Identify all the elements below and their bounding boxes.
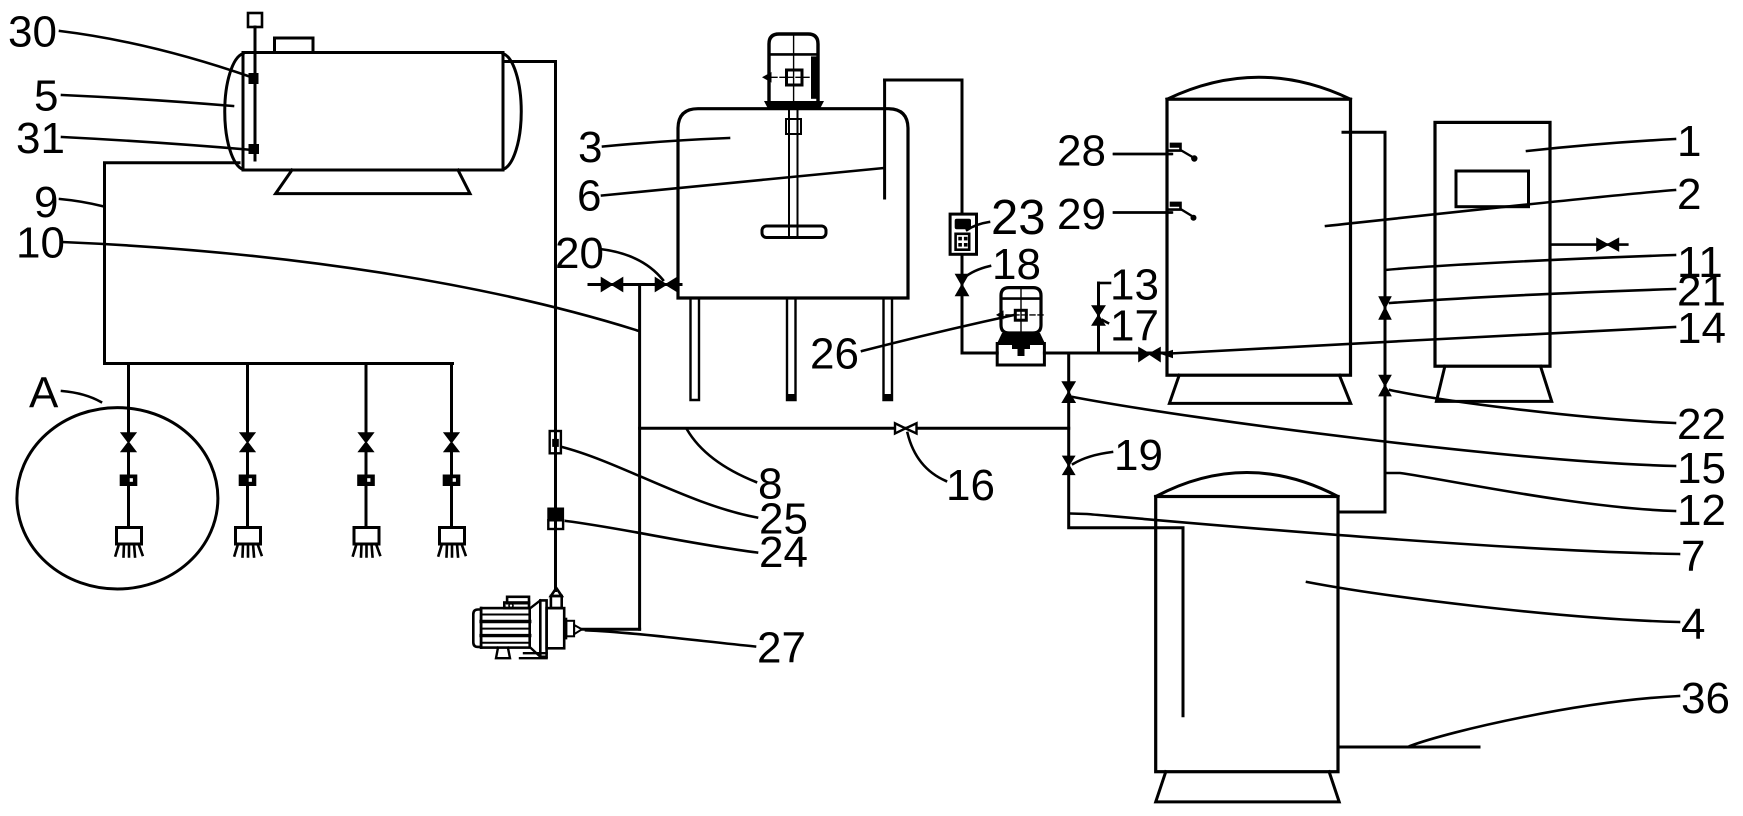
device 24 on down pipe: [547, 508, 564, 530]
spray drop 1: [127, 364, 130, 528]
tank 3 leg 3: [884, 298, 893, 400]
svg-text:24: 24: [759, 528, 808, 577]
tank 5 vent box: [275, 38, 314, 53]
leader 1: [1527, 139, 1675, 151]
agitator blade 6: [762, 226, 826, 238]
svg-text:36: 36: [1681, 674, 1730, 723]
tank 2 stand: [1169, 375, 1350, 403]
manifold frame 9: [105, 163, 453, 364]
pump 27 outlet pipe: [582, 628, 640, 631]
leader 10: [62, 242, 639, 331]
flow meter 25 on down pipe: [550, 431, 561, 453]
svg-text:31: 31: [16, 114, 65, 163]
svg-text:30: 30: [8, 8, 57, 57]
nozzle 3: [353, 528, 380, 557]
spray drop 2: [246, 364, 249, 528]
valve 16: [895, 423, 917, 433]
sensor 31 (lower black square): [249, 144, 260, 154]
leader 29: [1114, 211, 1171, 214]
tank 4 outlet pipe 36: [1338, 746, 1479, 749]
leader 24: [566, 521, 757, 553]
svg-text:19: 19: [1114, 431, 1163, 480]
valve 20 right: [656, 278, 677, 291]
svg-text:6: 6: [577, 172, 601, 221]
svg-text:23: 23: [991, 191, 1046, 245]
block on drop 2: [239, 475, 257, 487]
cabinet window: [1456, 171, 1529, 207]
leader 5: [62, 95, 233, 106]
spray drop 3: [365, 364, 368, 528]
leader 21: [1390, 289, 1675, 303]
nozzle 1: [116, 528, 143, 557]
tank 3 leg 1: [691, 298, 700, 400]
tank 5 body: [225, 53, 522, 171]
leader 11: [1385, 255, 1675, 270]
leader 22: [1390, 390, 1675, 423]
dip pipe 6 into tank 3: [883, 80, 886, 198]
valve 14: [1139, 348, 1160, 361]
block on drop 3: [357, 475, 375, 487]
svg-text:14: 14: [1677, 304, 1726, 353]
controller 23: [950, 214, 976, 254]
svg-text:7: 7: [1681, 532, 1705, 581]
svg-text:3: 3: [578, 123, 602, 172]
svg-text:A: A: [29, 369, 59, 418]
valve 19: [1063, 456, 1074, 474]
svg-text:28: 28: [1057, 127, 1106, 176]
agitator shaft: [786, 109, 801, 236]
svg-text:4: 4: [1681, 600, 1705, 649]
leader 23: [967, 222, 989, 230]
svg-text:10: 10: [16, 219, 65, 268]
leader 8: [687, 430, 756, 483]
tank 3 leg 2: [787, 298, 796, 400]
level gauge top square: [248, 13, 262, 27]
leader 26: [862, 315, 1014, 351]
transfer pipe down (15/19): [1069, 353, 1183, 716]
leader 30: [60, 31, 251, 77]
leader 9: [60, 199, 104, 207]
centrifugal pump 27: [473, 588, 582, 658]
control cabinet 1: [1435, 122, 1550, 366]
svg-text:12: 12: [1677, 486, 1726, 535]
svg-text:16: 16: [946, 461, 995, 510]
cabinet outlet pipe 11: [1550, 243, 1627, 246]
valve on drop 3: [359, 433, 373, 452]
pipe from tank 5 top to down pipe: [505, 62, 556, 591]
pipe tank2 to tank4 (11/21/22/12): [1339, 132, 1385, 512]
leader 28: [1114, 153, 1171, 156]
pipe tank3 top to pump 26: [885, 80, 998, 353]
block on drop 1: [120, 475, 138, 487]
metering pump 26: [996, 288, 1045, 365]
leader 7: [1070, 514, 1679, 555]
detail circle A: [17, 408, 218, 589]
valve on cabinet pipe: [1597, 239, 1618, 251]
tank 4 stand: [1156, 772, 1340, 802]
leader 2: [1326, 190, 1675, 226]
leader 16: [908, 433, 947, 481]
mixing tank 3: [678, 109, 908, 298]
nozzle 2: [235, 528, 262, 557]
valve 17: [1093, 306, 1105, 325]
leader 3: [603, 138, 729, 147]
valve on drop 4: [445, 433, 459, 452]
tank 5 stand: [276, 170, 470, 194]
leader 18: [964, 266, 990, 278]
leader 25: [562, 447, 757, 518]
leader 14: [1170, 327, 1675, 354]
feed line with valves 20: [589, 283, 681, 286]
svg-text:27: 27: [757, 624, 806, 673]
svg-text:18: 18: [992, 240, 1041, 289]
leader 31: [62, 137, 253, 150]
leader 6: [602, 168, 884, 196]
leader 13: [1099, 282, 1111, 285]
svg-text:26: 26: [810, 330, 859, 379]
sensor 28: [1114, 144, 1198, 162]
return pipe 10 (vertical): [638, 285, 641, 630]
svg-text:22: 22: [1677, 400, 1726, 449]
leader 12: [1385, 473, 1675, 511]
sensor 29: [1114, 203, 1197, 221]
valve 22: [1380, 376, 1391, 396]
storage tank 2: [1167, 77, 1351, 375]
leader 4: [1307, 582, 1679, 622]
cabinet stand: [1436, 366, 1551, 401]
leader 36: [1410, 696, 1679, 746]
leader 19: [1073, 452, 1112, 464]
valve 18: [956, 275, 968, 296]
leader 27: [586, 630, 755, 646]
block on drop 4: [443, 475, 461, 487]
leader 15: [1073, 397, 1675, 466]
svg-text:29: 29: [1057, 190, 1106, 239]
port 13 branch: [1097, 283, 1100, 353]
agitator motor on tank 3: [762, 34, 824, 109]
sensor 30 (upper black square): [249, 73, 259, 84]
pipe pump26 to junction: [1044, 352, 1167, 355]
valve 20 left: [602, 278, 623, 291]
nozzle 4: [439, 528, 466, 557]
svg-text:20: 20: [555, 229, 604, 278]
spray drop 4: [450, 364, 453, 528]
leader A: [62, 391, 101, 402]
arrow on valve 14: [1161, 350, 1174, 358]
valve on drop 2: [241, 433, 255, 452]
svg-text:17: 17: [1110, 302, 1159, 351]
bottom manifold 8: [640, 427, 1069, 430]
svg-text:1: 1: [1677, 117, 1701, 166]
valve 21: [1380, 297, 1391, 319]
collection tank 4: [1156, 473, 1338, 772]
level gauge 5 stem: [254, 27, 257, 160]
svg-text:2: 2: [1677, 170, 1701, 219]
leader 20: [600, 249, 663, 280]
leader 17: [1103, 320, 1109, 323]
valve 15: [1063, 382, 1075, 402]
valve on drop 1: [122, 433, 136, 452]
